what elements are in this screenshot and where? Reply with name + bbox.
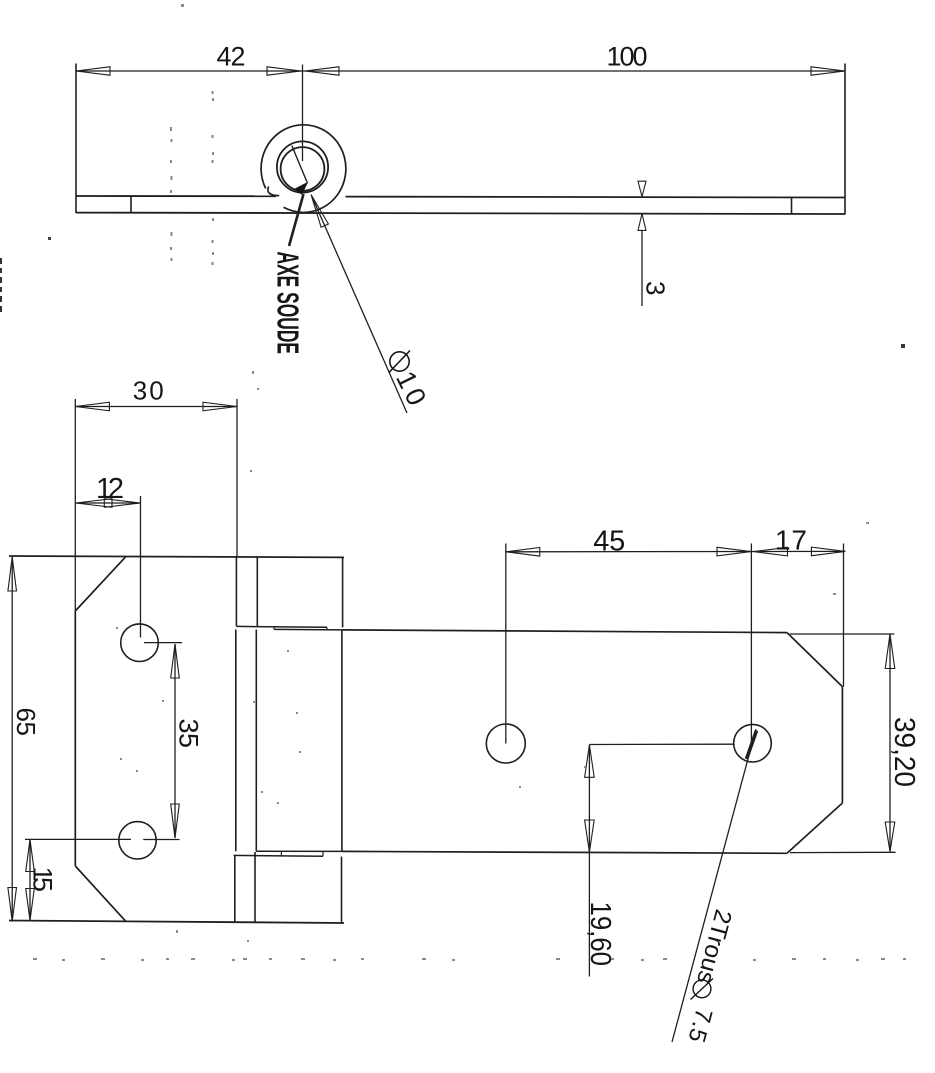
arrow right of dim 42 <box>267 67 301 75</box>
right plate bottom edge <box>342 851 787 853</box>
barrel bottom seam lower line <box>234 854 324 857</box>
dimension 39,20 arrow up <box>885 634 895 669</box>
dimension 39,20 line <box>889 634 891 852</box>
extension line 39,20 bottom <box>790 851 896 853</box>
barrel left edge middle knuckle <box>255 630 257 852</box>
diameter symbol of 10 <box>389 351 410 373</box>
left plate hole bottom <box>119 822 156 859</box>
dotted scanner row y~959 <box>33 958 37 960</box>
diameter symbol of 7.5 <box>691 979 714 1000</box>
dimension 3: upper arrow (pointing down) <box>638 181 646 197</box>
left plate left edge <box>74 611 76 866</box>
left plate right edge (seg 1) <box>235 557 237 626</box>
barrel top seam upper line <box>236 625 327 628</box>
right plate hole left (Ø7.5) <box>486 724 525 763</box>
right plate hole right (Ø7.5) <box>734 724 772 762</box>
barrel bottom seam tick a <box>280 851 282 855</box>
extension line 30 right <box>236 399 238 557</box>
extension line 12 to hole centre <box>140 496 142 638</box>
leader line 2 trous <box>672 729 756 1042</box>
left border dashes <box>0 258 2 264</box>
arrow left of dim 100 <box>305 67 339 75</box>
dimension 35 line <box>174 644 176 838</box>
arrow right of dim 100 <box>811 67 845 75</box>
svg-text:65: 65 <box>11 708 41 737</box>
strip top line right segment <box>346 196 846 199</box>
dimension 65 arrow up <box>8 557 17 591</box>
svg-text:AXE SOUDE: AXE SOUDE <box>271 252 306 355</box>
extension line through knuckle centre <box>302 65 304 162</box>
leader line AXE SOUDE <box>289 194 304 246</box>
svg-text:39,20: 39,20 <box>888 717 920 787</box>
svg-text:100: 100 <box>607 42 648 72</box>
barrel top seam lower line <box>274 628 343 631</box>
strip seam tick right <box>791 197 793 214</box>
svg-text:42: 42 <box>217 42 246 72</box>
speckles near 30 dim <box>252 371 254 374</box>
dimension 17 arrow left <box>754 547 788 556</box>
right plate right edge <box>841 687 843 803</box>
barrel right edge bottom knuckle <box>341 857 343 923</box>
dimension 45 arrow right <box>717 547 751 556</box>
dimension 45/17 line <box>506 550 846 552</box>
strip bottom line <box>76 213 845 214</box>
dimension 45 arrow left <box>506 548 540 557</box>
left plate right edge (seg 3) <box>234 855 236 922</box>
dimension 12 line <box>76 502 141 504</box>
dimension 12 arrow left <box>76 499 112 508</box>
dimension 35 arrow up <box>171 644 180 678</box>
dimension 35 arrow down <box>171 804 180 838</box>
left plate top-left chamfer <box>75 556 126 611</box>
speckle trail vertical x~212 <box>212 91 214 94</box>
dimension 19,60 line <box>588 745 590 977</box>
dimension 65 line <box>11 557 13 922</box>
barrel bottom seam tick b <box>322 851 324 856</box>
dimension 12 arrow right <box>104 499 140 508</box>
dimension line 42+100 <box>76 70 845 72</box>
dimension 39,20 arrow down <box>885 822 895 852</box>
left plate top edge (with extension tail to 65 dim) <box>9 556 344 557</box>
speckle dot near axe soude <box>48 237 51 240</box>
extension line 45 left to hole <box>505 544 507 744</box>
speckle dot top <box>181 4 184 7</box>
strip seam tick left <box>130 196 132 213</box>
dimension 30 arrow left <box>75 402 109 411</box>
dimension 19,60 arrow down <box>585 820 595 852</box>
speckle dot right middle <box>901 344 905 348</box>
barrel bottom seam upper line <box>256 850 342 852</box>
svg-text:17: 17 <box>775 525 807 556</box>
extension line 30 left <box>74 399 76 611</box>
dimension 65 arrow down <box>8 888 17 922</box>
knuckle curl arc <box>268 186 279 195</box>
dimension 30 line <box>75 406 237 408</box>
knuckle outer circle (with gap lower-left) <box>261 125 346 213</box>
arrow left of dim 42 <box>76 67 110 75</box>
left plate bottom edge (with extension tail) <box>9 921 344 924</box>
dimension 3: lower arrow (pointing up) <box>638 214 646 231</box>
extension line 17 right <box>843 544 845 687</box>
svg-text:3: 3 <box>641 281 671 295</box>
filled arrowhead AXE SOUDE <box>294 182 309 195</box>
svg-text:19,60: 19,60 <box>584 902 616 967</box>
svg-text:45: 45 <box>593 526 625 558</box>
extension line left (x=76) / left end cap of strip <box>75 64 77 214</box>
pin weld diagonal line <box>292 146 307 182</box>
dimension 30 arrow right <box>203 402 237 411</box>
svg-text:12: 12 <box>96 473 124 505</box>
extension line 45/17 middle to hole <box>750 544 752 743</box>
left plate hole top <box>121 624 159 662</box>
open arrowhead diameter 10 <box>311 195 328 228</box>
leader thick stroke inside hole <box>747 731 757 760</box>
svg-text:15: 15 <box>28 867 58 893</box>
dimension 15 line <box>29 840 31 921</box>
dimension 15 arrow up <box>26 840 35 872</box>
left plate bottom-left chamfer <box>75 866 126 922</box>
dimension 19,60 arrow up <box>585 745 595 778</box>
extension line through bottom hole <box>25 838 131 840</box>
speckles in barrel <box>253 701 255 703</box>
pin outer circle (Ø10) <box>277 141 328 192</box>
dimension 15 arrow down <box>26 889 35 921</box>
extension line right (x=845) / right end cap of strip <box>844 64 846 215</box>
strip top line left segment <box>76 195 276 197</box>
barrel left edge bottom knuckle <box>254 852 256 923</box>
barrel right edge top knuckle <box>342 558 344 628</box>
extension line 39,20 top <box>790 633 894 635</box>
right plate bottom-right chamfer <box>787 803 842 853</box>
speckle trail vertical x~171 <box>170 127 172 131</box>
extension line 19,60 to hole <box>589 743 733 745</box>
pin inner circle (chamfer) <box>281 147 325 191</box>
barrel left edge top knuckle <box>256 557 258 626</box>
svg-text:35: 35 <box>174 719 204 749</box>
extension line top hole to 35 <box>144 642 182 644</box>
speckles in right plate <box>833 593 836 595</box>
left plate right edge (seg 2) <box>235 630 237 852</box>
speckles in left plate <box>116 627 118 629</box>
barrel top seam tick a <box>273 627 275 630</box>
barrel right edge middle knuckle <box>341 630 343 851</box>
barrel top seam tick b <box>326 627 328 630</box>
dimension 17 arrow right <box>811 547 845 556</box>
leader line diameter 10 <box>313 199 407 413</box>
right plate top-right chamfer <box>787 633 842 687</box>
dimension 3: leader tail <box>641 230 643 306</box>
right plate top edge <box>343 630 787 633</box>
